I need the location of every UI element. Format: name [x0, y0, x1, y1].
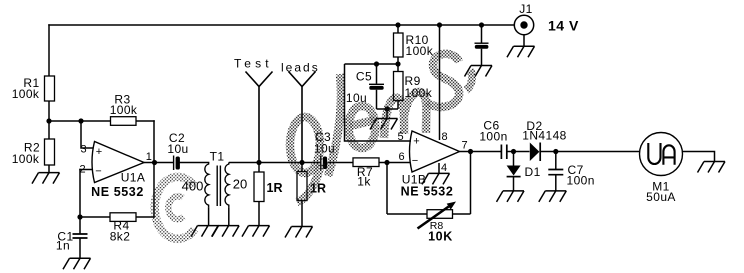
label C6 [479, 119, 507, 144]
svg-text:4: 4 [441, 162, 447, 174]
capacitor C6 [501, 145, 506, 160]
wire U1A output [144, 162, 173, 164]
ground right of meter [698, 162, 726, 173]
diode D1 [507, 152, 521, 191]
watermark letter s [427, 54, 472, 107]
resistor R3 [111, 117, 137, 126]
svg-text:6: 6 [399, 151, 405, 163]
wire C3 to R7 [327, 162, 353, 164]
transformer T1 core [217, 166, 220, 207]
wire node B to R3 [81, 120, 111, 122]
R8 arrow [418, 202, 457, 229]
wire C1 stem bottom [79, 238, 81, 258]
wire R3 to output column [136, 120, 154, 122]
ground under 1R second [285, 227, 313, 238]
label C1 [56, 230, 74, 253]
svg-text:10u: 10u [167, 142, 188, 156]
ground under D1 [497, 191, 525, 202]
ground under T1 primary [191, 226, 219, 237]
node D1 junction [511, 149, 516, 154]
svg-text:10K: 10K [428, 230, 453, 244]
wire pin2 down to node C [79, 170, 81, 218]
wire R7 to U1B pin6 [379, 162, 411, 164]
wire C6 to D2 [507, 151, 530, 153]
wire leads node to C3 [302, 162, 320, 164]
resistor R4 [110, 213, 136, 222]
svg-text:1k: 1k [357, 175, 371, 189]
label M1 [646, 180, 676, 204]
label R3 [110, 93, 138, 118]
transformer T1 secondary winding [225, 163, 229, 208]
ground under R2 [32, 173, 60, 184]
wire feedback up to output [470, 152, 472, 215]
wire node A to node B [49, 120, 81, 122]
capacitor C2 electrolytic [174, 156, 180, 171]
watermark letter n [384, 92, 426, 138]
svg-text:100k: 100k [12, 152, 40, 166]
U1B output junction [468, 149, 473, 154]
svg-text:7: 7 [462, 140, 468, 152]
ground under pin4 [422, 173, 450, 184]
wire meter to ground [683, 152, 715, 162]
svg-text:U1A: U1A [121, 171, 146, 185]
svg-text:1: 1 [146, 151, 152, 163]
resistor R2 [45, 139, 55, 165]
node A junction [46, 118, 51, 123]
node rail C4 junction [479, 22, 484, 27]
resistor R7 [353, 158, 379, 167]
label R4 [110, 219, 131, 244]
label C3 [314, 130, 335, 156]
wire node A to R2 [48, 121, 50, 139]
op-amp U1B [410, 131, 460, 172]
svg-text:C5: C5 [356, 70, 372, 84]
label R1 [12, 76, 40, 101]
wire top rail [49, 24, 514, 26]
wire T1 secondary top to test node [229, 162, 302, 164]
wire node B to pin3 [81, 121, 94, 148]
wire D2 to meter [541, 151, 640, 153]
svg-text:3: 3 [81, 143, 87, 155]
svg-text:8k2: 8k2 [110, 230, 131, 244]
svg-text:50uA: 50uA [646, 190, 676, 204]
svg-text:+: + [413, 136, 419, 148]
wire feedback down [386, 163, 388, 215]
ground under T1 secondary [212, 226, 240, 237]
resistor R10 [394, 25, 404, 64]
label R2 [12, 141, 40, 167]
svg-text:100k: 100k [406, 44, 434, 58]
capacitor C7 [548, 152, 563, 191]
transformer T1 primary winding [205, 163, 209, 208]
label C7 [567, 163, 595, 188]
meter M1 [640, 133, 683, 176]
capacitor C4 decoupling electrolytic [475, 25, 489, 66]
resistor R9 [394, 64, 404, 109]
svg-text:J1: J1 [519, 2, 532, 16]
svg-text:2: 2 [80, 163, 86, 175]
wire C5 R9 bottom [377, 108, 399, 110]
node feedback junction [384, 160, 389, 165]
node bias ground junction [384, 106, 389, 111]
resistor 1R second [297, 163, 307, 227]
watermark letter d [290, 74, 341, 202]
svg-text:8: 8 [442, 131, 448, 143]
node R10 bottom junction [395, 61, 400, 66]
label R10 [406, 33, 434, 58]
resistor R8 [427, 210, 453, 219]
wire left drop to R1 [48, 25, 50, 76]
wire R1 to node A [48, 101, 50, 121]
wire bias top [345, 63, 399, 65]
svg-text:100k: 100k [12, 87, 40, 101]
svg-text:1N4148: 1N4148 [522, 129, 566, 143]
svg-text:1R: 1R [267, 181, 283, 195]
wire pin2 stub [80, 169, 94, 171]
ground under C1 [63, 258, 91, 269]
node B junction [78, 118, 83, 123]
wire C2 to T1 [180, 162, 209, 164]
wire C1 stem top [79, 217, 81, 234]
node Test junction [256, 160, 261, 165]
svg-text:NE 5532: NE 5532 [401, 185, 454, 199]
svg-text:+: + [96, 146, 102, 158]
svg-text:D1: D1 [525, 165, 541, 179]
ground under bias [370, 119, 398, 130]
wire T1 primary to ground [208, 207, 210, 225]
wire R2 to ground [48, 165, 50, 173]
capacitor C1 [73, 234, 88, 238]
node rail pin8 junction [437, 22, 442, 27]
label C5 [346, 70, 372, 106]
ground under J1 [507, 46, 535, 57]
label D2 [522, 119, 566, 143]
svg-text:20: 20 [233, 177, 247, 192]
connector J1 [514, 15, 533, 46]
ground under 1R first [242, 226, 270, 237]
svg-text:1n: 1n [56, 239, 70, 253]
test terminal arrow 1 [246, 72, 273, 163]
diode D2 [530, 143, 540, 162]
ground under C4 [465, 66, 493, 77]
capacitor C5 electrolytic [369, 64, 384, 109]
node C5 top junction [374, 61, 379, 66]
resistor R1 [45, 76, 55, 101]
svg-text:100k: 100k [110, 103, 138, 117]
node leads junction [299, 160, 304, 165]
watermark copyright [155, 177, 195, 239]
wire pin5 from bias [345, 64, 412, 141]
wire T1 secondary to ground [228, 207, 230, 225]
wire pin8 from rail [439, 25, 441, 140]
wire bias ground stem [386, 109, 388, 119]
U1A output junction [152, 160, 157, 165]
label R7 [357, 165, 373, 189]
ground under C7 [539, 191, 567, 202]
op-amp U1A [92, 142, 144, 183]
wire pin4 to ground [438, 163, 440, 173]
wire R4 to output column [136, 216, 154, 218]
svg-text:−: − [95, 166, 101, 178]
label C2 [167, 131, 188, 156]
svg-text:100n: 100n [567, 174, 595, 188]
watermark letter e [349, 106, 376, 148]
svg-text:NE 5532: NE 5532 [91, 185, 144, 199]
node C junction [77, 214, 82, 219]
wire feedback bottom [387, 213, 471, 215]
wire node C to R4 [80, 216, 110, 218]
resistor 1R first [254, 163, 264, 226]
svg-text:T1: T1 [210, 150, 225, 164]
svg-text:100n: 100n [479, 129, 507, 143]
wire output column vertical [153, 121, 155, 217]
node rail R10 junction [395, 22, 400, 27]
svg-text:−: − [412, 155, 418, 167]
test terminal arrow 2 [289, 72, 316, 163]
svg-text:14 V: 14 V [548, 18, 579, 34]
wire U1B output to C6 [460, 151, 502, 153]
label R9 [405, 74, 433, 100]
node C7 junction [553, 149, 558, 154]
svg-text:Test: Test [234, 57, 273, 71]
capacitor C3 electrolytic [321, 156, 327, 170]
svg-text:leads: leads [281, 61, 320, 75]
